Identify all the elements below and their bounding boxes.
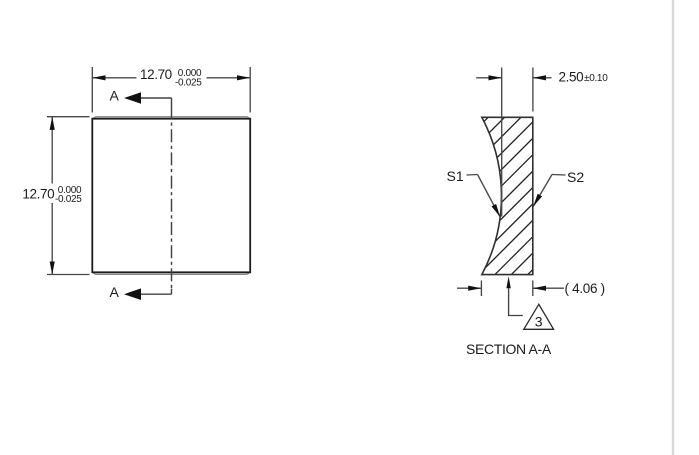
svg-text:S1: S1 [447,168,464,184]
svg-text:A: A [110,87,120,103]
svg-text:-0.025: -0.025 [55,194,82,205]
svg-text:3: 3 [535,314,543,330]
svg-text:±0.10: ±0.10 [584,73,608,84]
svg-text:2.50: 2.50 [559,69,584,84]
svg-text:SECTION A-A: SECTION A-A [466,341,552,357]
svg-text:12.70: 12.70 [140,67,172,82]
svg-text:( 4.06 ): ( 4.06 ) [565,281,605,296]
svg-text:S2: S2 [567,169,584,185]
svg-text:12.70: 12.70 [22,187,54,202]
svg-text:-0.025: -0.025 [175,77,202,88]
svg-text:A: A [110,284,120,300]
